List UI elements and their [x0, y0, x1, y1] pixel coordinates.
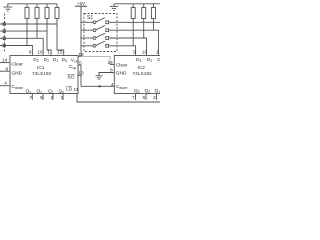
wire: row4 to IC1 pin9 — [0, 46, 32, 56]
resistor R3 — [45, 4, 51, 56]
svg-text:D0: D0 — [62, 57, 67, 63]
svg-text:D1: D1 — [53, 57, 58, 63]
svg-text:Q1: Q1 — [155, 88, 161, 94]
switch S1-d — [81, 41, 109, 47]
svg-text:74LS192: 74LS192 — [32, 71, 52, 77]
svg-text:2: 2 — [153, 95, 156, 101]
ground (IC2 pin 8) — [96, 76, 103, 80]
IC1 pin 14 Clear stub — [0, 62, 10, 64]
svg-text:+5V: +5V — [77, 1, 86, 6]
svg-text:GND: GND — [12, 71, 23, 77]
svg-text:14: 14 — [108, 60, 114, 66]
wire: row3 to IC1 pin10 — [0, 38, 43, 55]
svg-text:Q3: Q3 — [26, 89, 32, 95]
svg-text:Cup: Cup — [69, 64, 76, 70]
wire: right ground rail — [114, 3, 160, 5]
svg-text:10: 10 — [142, 49, 148, 55]
svg-text:6: 6 — [143, 95, 146, 101]
switch S2-a contact — [3, 23, 5, 25]
resistor R6 — [142, 4, 146, 38]
switch S2-b contact — [3, 30, 5, 32]
svg-text:10: 10 — [37, 49, 43, 55]
resistor R1 — [25, 4, 29, 46]
switch S2-c contact — [3, 37, 5, 39]
resistor R4 — [55, 4, 64, 56]
svg-text:1: 1 — [47, 49, 50, 55]
ground (left rail) — [3, 4, 12, 11]
svg-text:Clear: Clear — [116, 63, 128, 69]
svg-text:GND: GND — [116, 70, 127, 76]
wire: S1 row2 to IC2 pin1 — [109, 30, 159, 55]
switch S1-a — [81, 18, 109, 24]
svg-text:D3: D3 — [136, 57, 141, 63]
wire: left +ground rail — [8, 3, 57, 5]
svg-text:D1: D1 — [157, 57, 160, 63]
op-amp: none; IC1 74LS192 counter — [10, 56, 78, 94]
svg-text:D2: D2 — [44, 57, 49, 63]
switch box S1 — [84, 14, 117, 52]
svg-text:IC2: IC2 — [138, 65, 146, 71]
svg-text:Clear: Clear — [12, 62, 24, 68]
svg-text:15: 15 — [57, 49, 63, 55]
IC2 output pin stubs 7,6,2 — [135, 94, 137, 101]
resistor R7 — [151, 4, 155, 30]
svg-text:4: 4 — [111, 82, 114, 88]
svg-text:11: 11 — [74, 87, 79, 93]
wire: S1 row1 out (to off-screen pin 15) — [109, 21, 161, 23]
svg-text:Cdown: Cdown — [116, 84, 128, 90]
svg-text:LD: LD — [66, 86, 73, 92]
svg-text:Q2: Q2 — [145, 88, 151, 94]
svg-text:1: 1 — [156, 49, 159, 55]
wire: IC1 pin11 LD line — [77, 94, 161, 103]
svg-text:16: 16 — [78, 52, 84, 58]
wire: row1 to IC1 pin15 — [0, 23, 57, 25]
switch S2-d contact — [3, 44, 5, 46]
IC1 output pin stubs 7,6,2,3 — [31, 94, 33, 101]
resistor R5 — [131, 4, 135, 46]
wire: S1 row4 to IC2 pin9 — [109, 46, 136, 56]
IC1 pin 4 Cdown stub — [0, 85, 10, 87]
LD overline — [66, 86, 72, 88]
svg-text:S1: S1 — [87, 15, 93, 21]
svg-text:7: 7 — [132, 95, 135, 101]
arrowhead on cascade wire — [99, 85, 103, 88]
ground (right rail) — [110, 4, 118, 11]
wire: S1 row3 to IC2 pin10 — [109, 38, 147, 56]
+5V supply — [75, 1, 87, 57]
svg-text:Cdown: Cdown — [12, 84, 24, 90]
svg-text:9: 9 — [29, 49, 32, 55]
wire: IC1 pin5 Cup tie high — [78, 64, 81, 66]
IC2 74LS192 counter — [114, 56, 162, 94]
svg-text:9: 9 — [133, 49, 136, 55]
IC2 pin 8 GND wire and ground — [99, 73, 114, 76]
wire: IC1 pin16 VCC to +5V and IC2 pin14 — [78, 55, 81, 57]
svg-text:74LS192: 74LS192 — [133, 71, 153, 77]
IC1 pin 8 GND stub — [0, 70, 10, 72]
svg-text:D2: D2 — [147, 57, 152, 63]
switch S1-c — [81, 33, 109, 39]
svg-text:BO: BO — [68, 74, 75, 80]
svg-text:Q2: Q2 — [37, 89, 43, 95]
switch box S2 (cropped at left edge) — [4, 14, 6, 52]
svg-text:IC1: IC1 — [37, 65, 45, 71]
wire: IC1 pin13 BO to IC2 pin4 Cdown — [78, 65, 114, 86]
switch S1-b — [81, 26, 109, 32]
svg-text:Q3: Q3 — [134, 88, 140, 94]
wire: row2 to IC1 pin1 — [0, 30, 47, 32]
BO overline — [68, 74, 76, 76]
resistor R2 — [35, 4, 39, 39]
svg-text:D3: D3 — [33, 57, 38, 63]
